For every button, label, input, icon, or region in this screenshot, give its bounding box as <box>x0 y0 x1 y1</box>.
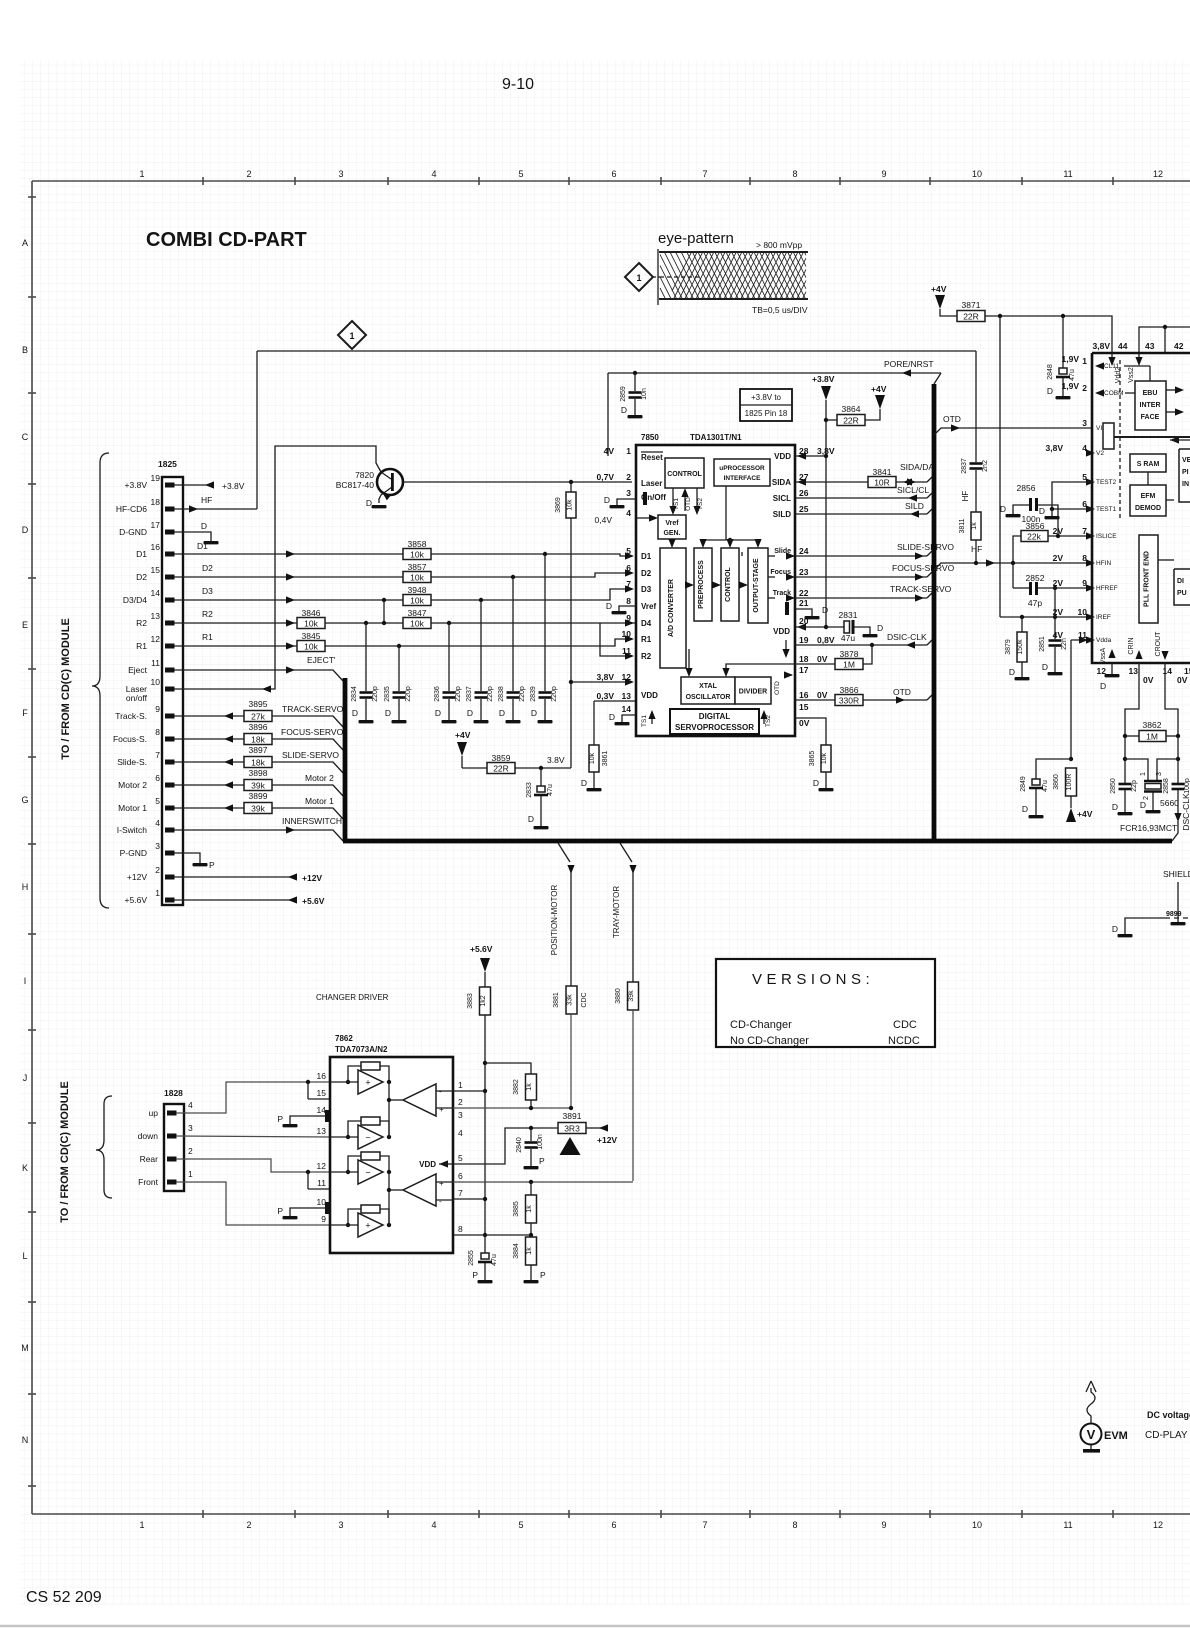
svg-text:10: 10 <box>317 1197 327 1207</box>
svg-text:D3: D3 <box>641 585 652 594</box>
connector 1825 pin 6 pad <box>165 783 175 788</box>
svg-text:10k: 10k <box>589 752 596 764</box>
svg-text:2838: 2838 <box>498 686 505 702</box>
svg-text:9: 9 <box>155 704 160 714</box>
capacitor 2852 47p <box>1012 563 1014 588</box>
block PREPROCESS <box>694 548 712 621</box>
wire Front to pin 9 <box>176 1182 330 1225</box>
svg-text:10: 10 <box>1078 607 1088 617</box>
wire up to pins 15/16 <box>176 1082 330 1113</box>
block EFM DEMOD <box>1130 485 1166 516</box>
wire 3.8V down rail <box>999 316 1001 617</box>
svg-text:39k: 39k <box>628 990 635 1002</box>
block A/D CONVERTER <box>660 548 686 668</box>
svg-text:10: 10 <box>151 677 161 687</box>
svg-text:13: 13 <box>622 691 632 701</box>
svg-text:100p: 100p <box>1184 778 1190 794</box>
svg-text:TS1: TS1 <box>673 498 680 510</box>
svg-text:D: D <box>1039 506 1045 516</box>
svg-text:R1: R1 <box>136 641 147 651</box>
svg-text:3898: 3898 <box>249 768 268 778</box>
internal arrows <box>686 584 690 586</box>
svg-text:D: D <box>385 708 391 718</box>
capacitor 2858 100p <box>1172 783 1185 786</box>
svg-text:Vref: Vref <box>641 602 656 611</box>
resistor 3885 1k <box>530 1182 532 1195</box>
svg-text:7: 7 <box>702 169 707 179</box>
svg-text:D: D <box>1000 504 1006 514</box>
svg-text:3895: 3895 <box>249 699 268 709</box>
svg-text:15: 15 <box>1184 666 1190 676</box>
svg-text:3891: 3891 <box>563 1111 582 1121</box>
svg-text:up: up <box>149 1108 159 1118</box>
svg-text:D: D <box>366 498 372 508</box>
svg-text:1: 1 <box>349 331 354 341</box>
svg-text:R1: R1 <box>202 632 213 642</box>
svg-text:25: 25 <box>799 504 809 514</box>
svg-text:1: 1 <box>458 1080 463 1090</box>
wire pin43 feed <box>1139 327 1190 358</box>
svg-text:10k: 10k <box>410 619 424 629</box>
svg-text:P: P <box>277 1114 283 1124</box>
svg-text:D1: D1 <box>136 549 147 559</box>
svg-text:SERVOPROCESSOR: SERVOPROCESSOR <box>675 723 754 732</box>
svg-text:3864: 3864 <box>842 404 861 414</box>
svg-text:VERSIONS:: VERSIONS: <box>752 971 874 988</box>
svg-text:B: B <box>22 345 28 355</box>
connector 1825 pin 11 pad <box>165 668 175 673</box>
svg-text:0V: 0V <box>1143 675 1154 685</box>
svg-text:VI: VI <box>1096 425 1102 432</box>
svg-text:22R: 22R <box>963 312 979 322</box>
svg-text:POSITION-MOTOR: POSITION-MOTOR <box>550 885 559 956</box>
svg-text:D: D <box>1100 681 1106 691</box>
svg-text:0V: 0V <box>1177 675 1188 685</box>
block OUTPUT-STAGE <box>748 548 768 623</box>
svg-text:3: 3 <box>155 841 160 851</box>
svg-text:OTD: OTD <box>893 687 911 697</box>
svg-text:33k: 33k <box>567 994 574 1006</box>
svg-text:FOCUS-SERVO: FOCUS-SERVO <box>892 563 955 573</box>
svg-text:+5.6V: +5.6V <box>302 896 325 906</box>
svg-text:Vdda: Vdda <box>1096 637 1112 644</box>
svg-text:CL11: CL11 <box>1104 363 1119 370</box>
transistor 7820 BC817-40 <box>377 469 403 495</box>
svg-text:TS1: TS1 <box>641 715 648 727</box>
resistor 3883 1k2 <box>480 987 491 1015</box>
svg-text:10: 10 <box>972 1520 982 1530</box>
svg-text:5660: 5660 <box>1160 798 1179 808</box>
svg-text:+3.8V: +3.8V <box>812 374 835 384</box>
pin8 ground <box>619 606 636 611</box>
svg-text:DSIC-CLK: DSIC-CLK <box>887 632 927 642</box>
svg-text:220p: 220p <box>405 686 412 702</box>
svg-text:TEST2: TEST2 <box>1096 479 1117 486</box>
svg-text:OTD: OTD <box>774 681 781 695</box>
svg-text:Reset: Reset <box>641 453 663 462</box>
svg-text:0,8V: 0,8V <box>817 635 835 645</box>
svg-text:1: 1 <box>626 446 631 456</box>
wire to IREF row <box>1054 588 1056 639</box>
svg-text:1825: 1825 <box>158 459 177 469</box>
block S RAM <box>1130 454 1166 472</box>
svg-text:+12V: +12V <box>597 1135 617 1145</box>
svg-text:+3.8V: +3.8V <box>222 481 245 491</box>
svg-text:D-GND: D-GND <box>119 527 147 537</box>
svg-text:4: 4 <box>188 1100 193 1110</box>
ground D at pin17 <box>174 532 211 541</box>
internal OTD to pin16 <box>785 640 787 650</box>
svg-text:7: 7 <box>155 750 160 760</box>
svg-text:PLL FRONT END: PLL FRONT END <box>1144 551 1151 607</box>
svg-text:1: 1 <box>155 888 160 898</box>
resistor 3899 39k / wire Motor 1 <box>174 807 244 809</box>
svg-text:IREF: IREF <box>1096 614 1111 621</box>
svg-text:1k2: 1k2 <box>480 995 487 1006</box>
svg-text:+4V: +4V <box>1077 809 1093 819</box>
connector 1828 pin 4 up <box>167 1111 177 1116</box>
svg-text:+4V: +4V <box>871 384 887 394</box>
svg-text:1k: 1k <box>526 1247 533 1255</box>
svg-text:DC voltages mea: DC voltages mea <box>1147 1410 1190 1420</box>
resistor 3869 10k <box>570 482 572 492</box>
capacitor 2837 2n2 <box>970 462 983 465</box>
internal amp 1 with feedback resistor <box>361 1062 380 1070</box>
svg-text:D: D <box>1009 667 1015 677</box>
border frame left line <box>31 181 33 1514</box>
svg-text:3857: 3857 <box>408 562 427 572</box>
svg-text:7862: 7862 <box>335 1034 353 1043</box>
ground P at pin14 <box>290 1116 330 1124</box>
svg-text:2835: 2835 <box>384 686 391 702</box>
svg-text:D3: D3 <box>202 586 213 596</box>
svg-text:5: 5 <box>518 1520 523 1530</box>
wire INNERSWITCH <box>174 830 344 842</box>
svg-text:17: 17 <box>151 520 161 530</box>
internal XTAL inputs <box>688 649 690 673</box>
svg-text:DSC-CLK: DSC-CLK <box>1181 793 1190 831</box>
svg-text:4: 4 <box>155 818 160 828</box>
svg-text:2: 2 <box>626 472 631 482</box>
svg-text:DI: DI <box>1177 578 1184 585</box>
svg-text:1828: 1828 <box>164 1088 183 1098</box>
wire HF from pin18 <box>174 508 257 510</box>
svg-text:+: + <box>365 1221 370 1231</box>
capacitor 2850 22p <box>1119 783 1132 786</box>
svg-text:HFIN: HFIN <box>1096 560 1111 567</box>
svg-text:!: ! <box>568 1146 571 1157</box>
svg-text:D: D <box>621 405 627 415</box>
svg-text:+4V: +4V <box>455 730 471 740</box>
svg-text:12: 12 <box>317 1161 327 1171</box>
svg-text:1k: 1k <box>526 1083 533 1091</box>
block digital PLL (cut) <box>1174 569 1190 605</box>
svg-text:3861: 3861 <box>602 751 609 767</box>
connector 1825 pin 8 pad <box>165 737 175 742</box>
svg-text:+3.8V to: +3.8V to <box>751 393 782 402</box>
svg-text:P: P <box>540 1270 546 1280</box>
svg-text:CONTROL: CONTROL <box>725 566 732 601</box>
block EBU INTERFACE <box>1135 381 1166 430</box>
svg-text:2851: 2851 <box>1039 636 1046 652</box>
svg-text:I-Switch: I-Switch <box>117 825 148 835</box>
scan bottom edge <box>0 1625 1190 1628</box>
svg-text:HF: HF <box>971 544 982 554</box>
svg-text:CROUT: CROUT <box>1155 631 1162 657</box>
svg-text:3885: 3885 <box>513 1201 520 1217</box>
svg-text:7: 7 <box>626 579 631 589</box>
resistor 3896 18k / wire FOCUS-SERVO <box>174 738 244 740</box>
svg-text:CHANGER DRIVER: CHANGER DRIVER <box>316 993 389 1002</box>
svg-text:24: 24 <box>799 546 809 556</box>
svg-text:D: D <box>1140 800 1146 810</box>
wire pin1 to rail <box>453 1090 485 1092</box>
svg-text:Track-S.: Track-S. <box>115 711 147 721</box>
svg-text:18: 18 <box>799 654 809 664</box>
capacitor 2855 47u <box>481 1253 489 1259</box>
capacitor 2840 100n <box>530 1128 532 1141</box>
svg-text:SICL/CL: SICL/CL <box>897 485 929 495</box>
svg-text:SICL: SICL <box>773 494 791 503</box>
svg-text:4: 4 <box>458 1128 463 1138</box>
svg-text:18: 18 <box>151 497 161 507</box>
svg-text:P: P <box>472 1270 478 1280</box>
svg-text:11: 11 <box>1063 169 1072 179</box>
svg-text:39k: 39k <box>251 781 265 791</box>
svg-text:8: 8 <box>626 596 631 606</box>
svg-text:EFM: EFM <box>1141 493 1156 500</box>
svg-text:2856: 2856 <box>1017 483 1036 493</box>
svg-text:SLIDE-SERVO: SLIDE-SERVO <box>897 542 954 552</box>
svg-text:+12V: +12V <box>302 873 322 883</box>
svg-text:4: 4 <box>431 1520 436 1530</box>
resistor 3897 18k / wire SLIDE-SERVO <box>174 761 244 763</box>
warning triangle <box>560 1137 581 1155</box>
svg-text:220p: 220p <box>519 686 526 702</box>
wire D3 jog to R2/D4 row <box>383 600 385 623</box>
wire TRACK-SERVO <box>795 597 927 599</box>
block CONTROL <box>665 458 704 488</box>
bus horizontal main <box>343 839 1172 844</box>
wire IREF row <box>1000 616 1092 618</box>
svg-text:3871: 3871 <box>962 300 981 310</box>
pin21 ground <box>785 602 789 615</box>
svg-text:HF: HF <box>961 491 970 502</box>
svg-text:V2: V2 <box>1096 450 1104 457</box>
svg-text:INNERSWITCH: INNERSWITCH <box>282 816 342 826</box>
wire SIDA/DA + resistor 3841 10R <box>795 481 868 483</box>
svg-text:47u: 47u <box>1069 369 1076 381</box>
wire DSIC-CLK <box>795 644 927 646</box>
svg-text:6: 6 <box>626 563 631 573</box>
pin3 ground <box>643 492 647 505</box>
bus exit OTD (right) to pin3 <box>934 428 1092 435</box>
svg-text:2: 2 <box>188 1146 193 1156</box>
svg-text:3948: 3948 <box>408 585 427 595</box>
svg-text:1,9V: 1,9V <box>1062 381 1080 391</box>
svg-text:D3/D4: D3/D4 <box>123 595 147 605</box>
block V1/V2 input <box>1103 423 1114 449</box>
svg-text:6: 6 <box>611 1520 616 1530</box>
node line from diamond 1 (HF) <box>257 350 976 352</box>
svg-text:19: 19 <box>799 635 809 645</box>
svg-text:D: D <box>604 495 610 505</box>
svg-text:3: 3 <box>1156 772 1163 776</box>
svg-text:3,8V: 3,8V <box>1093 341 1111 351</box>
svg-text:A/D CONVERTER: A/D CONVERTER <box>668 579 675 637</box>
pin19 +3.8V supply <box>174 484 209 486</box>
svg-text:10k: 10k <box>304 642 318 652</box>
svg-text:+4V: +4V <box>931 284 947 294</box>
svg-text:10k: 10k <box>567 499 574 511</box>
svg-text:22: 22 <box>799 588 809 598</box>
svg-text:3897: 3897 <box>249 745 268 755</box>
capacitor 2838 220p <box>512 577 514 691</box>
svg-text:D: D <box>1112 802 1118 812</box>
resistor 3895 27k / wire TRACK-SERVO <box>174 715 244 717</box>
svg-text:I: I <box>24 976 27 986</box>
connector 1825 pin 19 pad <box>165 483 175 488</box>
svg-text:47u: 47u <box>1042 780 1049 792</box>
svg-text:16: 16 <box>317 1071 327 1081</box>
wire 3.8V node up to pin12 <box>571 681 630 683</box>
svg-text:9899: 9899 <box>1166 911 1182 918</box>
svg-text:3R3: 3R3 <box>564 1124 580 1134</box>
svg-text:1: 1 <box>188 1169 193 1179</box>
svg-text:3811: 3811 <box>959 518 966 533</box>
wire pin2 row <box>453 1107 571 1109</box>
svg-text:12: 12 <box>151 634 161 644</box>
svg-text:10k: 10k <box>410 596 424 606</box>
svg-text:CDC: CDC <box>893 1019 917 1031</box>
svg-text:3862: 3862 <box>1143 720 1162 730</box>
connector 1825 pin 7 pad <box>165 760 175 765</box>
svg-text:2V: 2V <box>1053 578 1064 588</box>
svg-text:2858: 2858 <box>1163 778 1170 794</box>
svg-text:1: 1 <box>636 273 641 283</box>
svg-text:C: C <box>22 432 29 442</box>
svg-text:> 800 mVpp: > 800 mVpp <box>756 240 802 250</box>
svg-text:A: A <box>22 238 28 248</box>
svg-text:10R: 10R <box>874 478 890 488</box>
resistor 3866 330R / wire OTD <box>795 699 835 701</box>
svg-text:SILD: SILD <box>905 501 924 511</box>
capacitor 2834 220p <box>365 623 367 691</box>
svg-text:VDD: VDD <box>774 452 791 461</box>
svg-text:10k: 10k <box>821 752 828 764</box>
wire D3 row <box>174 589 630 600</box>
resistor 3882 1k <box>485 1063 531 1074</box>
svg-text:3: 3 <box>338 1520 343 1530</box>
svg-text:3: 3 <box>1082 418 1087 428</box>
svg-text:10k: 10k <box>410 550 424 560</box>
resistor 3859 22R <box>462 767 487 769</box>
bus exit POSITION-MOTOR <box>558 843 570 862</box>
capacitor 2833 47u <box>540 768 542 786</box>
svg-text:1: 1 <box>139 169 144 179</box>
internal amp 4 with feedback resistor <box>361 1205 380 1213</box>
svg-text:11: 11 <box>622 646 631 656</box>
svg-text:220p: 220p <box>551 686 558 702</box>
svg-text:OTD: OTD <box>943 414 961 424</box>
svg-text:No CD-Changer: No CD-Changer <box>730 1035 809 1047</box>
svg-text:eye-pattern: eye-pattern <box>658 230 734 247</box>
svg-text:3847: 3847 <box>408 608 427 618</box>
svg-text:47p: 47p <box>1028 598 1042 608</box>
wire pin7 to rail <box>453 1198 485 1200</box>
svg-text:3846: 3846 <box>302 608 321 618</box>
svg-text:9: 9 <box>881 169 886 179</box>
svg-text:+: + <box>365 1078 370 1088</box>
svg-text:D: D <box>877 623 883 633</box>
wire R2 row <box>174 622 636 624</box>
svg-text:CS 52 209: CS 52 209 <box>26 1589 102 1606</box>
svg-text:CRIN: CRIN <box>1128 637 1135 654</box>
connector 1825 pin 5 pad <box>165 806 175 811</box>
svg-text:4: 4 <box>626 508 631 518</box>
svg-text:22R: 22R <box>493 764 509 774</box>
svg-text:DIVIDER: DIVIDER <box>739 689 767 696</box>
svg-text:100n: 100n <box>537 1134 544 1150</box>
resistor 3880 39k <box>628 982 639 1010</box>
svg-text:D: D <box>528 814 534 824</box>
capacitor 2831 47u <box>826 626 844 628</box>
svg-text:2n2: 2n2 <box>982 460 989 472</box>
bus exit TRAY-MOTOR <box>620 843 632 862</box>
wire PORE/NRST <box>608 372 941 374</box>
wire Laser on/off <box>174 446 381 689</box>
svg-text:D1: D1 <box>197 541 208 551</box>
svg-text:2840: 2840 <box>516 1137 523 1153</box>
block uPROCESSOR INTERFACE <box>714 459 770 486</box>
svg-text:3: 3 <box>188 1123 193 1133</box>
capacitor 2849 47u <box>1036 759 1071 779</box>
svg-text:3869: 3869 <box>555 497 562 513</box>
wire +4V rail to pin44 <box>985 316 1112 358</box>
svg-text:12: 12 <box>1153 1520 1163 1530</box>
svg-text:3,8V: 3,8V <box>817 446 835 456</box>
svg-text:1M: 1M <box>1146 732 1158 742</box>
svg-text:3882: 3882 <box>513 1079 520 1095</box>
ground TEST1/TEST2 <box>1052 482 1092 509</box>
svg-text:3859: 3859 <box>492 753 511 763</box>
svg-text:INTER: INTER <box>1140 402 1161 409</box>
svg-text:CD-Changer: CD-Changer <box>730 1019 792 1031</box>
svg-text:+12V: +12V <box>127 872 147 882</box>
connector 1825 pin 9 pad <box>165 714 175 719</box>
svg-text:100R: 100R <box>1066 774 1073 791</box>
block version-pin interface (cut) <box>1179 449 1190 502</box>
svg-text:1: 1 <box>1140 772 1147 776</box>
connector 1825 pin 1 pad <box>165 898 175 903</box>
svg-text:D4: D4 <box>641 619 652 628</box>
svg-text:uPROCESSOR: uPROCESSOR <box>719 465 765 472</box>
svg-text:3,8V: 3,8V <box>1046 443 1064 453</box>
svg-text:6: 6 <box>155 773 160 783</box>
svg-text:220p: 220p <box>455 686 462 702</box>
note box +3.8V to 1825 Pin 18 <box>740 389 792 421</box>
svg-text:D: D <box>813 778 819 788</box>
svg-text:21: 21 <box>799 598 809 608</box>
wire pin13 VDD <box>594 700 636 702</box>
svg-text:FCR16,93MCT: FCR16,93MCT <box>1120 823 1177 833</box>
svg-text:Motor 2: Motor 2 <box>118 780 147 790</box>
svg-text:3858: 3858 <box>408 539 427 549</box>
connector 1825 pin 17 pad <box>165 530 175 535</box>
svg-text:VDD: VDD <box>419 1160 436 1169</box>
svg-text:FOCUS-SERVO: FOCUS-SERVO <box>281 727 344 737</box>
svg-text:47u: 47u <box>491 1254 498 1266</box>
